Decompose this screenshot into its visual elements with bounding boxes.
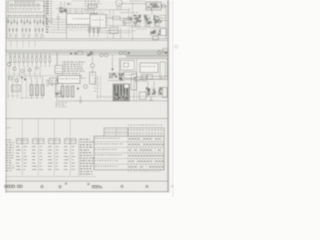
left half mid rail bbox=[7, 75, 56, 77]
labels above PLL box bbox=[67, 10, 69, 13]
relay box left bbox=[124, 72, 137, 78]
terminal symbol bbox=[149, 97, 153, 101]
chassis ground mark bbox=[79, 96, 83, 103]
bus fanout lines bbox=[50, 16, 67, 39]
switch cluster bbox=[109, 72, 118, 78]
schematic right border bbox=[167, 0, 169, 192]
output transistor bbox=[84, 85, 88, 89]
junction dot mid bbox=[112, 68, 114, 70]
faint list bottom rule bbox=[5, 176, 96, 178]
margin note mark bbox=[6, 126, 8, 129]
dashed divider x129 bbox=[128, 8, 130, 37]
vacuum tube V1 bbox=[116, 0, 123, 10]
comb labels bbox=[8, 62, 40, 74]
label row underline bbox=[7, 16, 48, 18]
mid component box bbox=[110, 28, 119, 39]
output socket circle bbox=[162, 4, 166, 8]
power supply label box bbox=[58, 76, 80, 84]
IC block: PLL frequency synthesizer U1 bbox=[67, 14, 98, 25]
lower-left transistors bbox=[9, 77, 12, 80]
bottom remnant parts bbox=[20, 93, 67, 108]
lower mid box bbox=[50, 78, 58, 84]
middle bus line 2 bbox=[7, 54, 168, 56]
block vertical wires bbox=[133, 76, 135, 101]
small box under cluster bbox=[153, 36, 159, 40]
notes text block bbox=[79, 139, 94, 177]
main horizontal bus 1 bbox=[7, 38, 168, 40]
PLL pin stubs and labels bbox=[67, 25, 95, 31]
lower-left vertical wires bbox=[8, 76, 26, 99]
crystal network bbox=[57, 0, 95, 30]
schematic bottom rail bbox=[56, 100, 168, 102]
parts list column bbox=[6, 139, 8, 142]
footer circles E bbox=[88, 183, 102, 188]
footer circle D bbox=[59, 186, 61, 188]
bus component cluster bbox=[87, 51, 95, 56]
smoothing capacitor trio bbox=[58, 86, 79, 97]
tube feed verticals bbox=[109, 10, 111, 18]
left schematic frame line bbox=[5, 0, 7, 193]
labels mid right bbox=[120, 11, 121, 14]
wire from tuner box bbox=[42, 5, 46, 7]
upper bus pair mid bbox=[96, 30, 136, 32]
footer circle F bbox=[121, 185, 123, 187]
label row under cluster bbox=[108, 79, 110, 82]
tuner internal wire 1 bbox=[9, 4, 41, 7]
connector pin list left column bbox=[46, 1, 49, 24]
legend riser lines bbox=[22, 119, 70, 139]
dashed vertical rail top bbox=[107, 14, 109, 39]
transformer T1 bbox=[146, 2, 161, 10]
right small parts row bbox=[135, 77, 162, 81]
signal name label row bbox=[8, 15, 10, 16]
regulator column box bbox=[90, 72, 96, 84]
bottom rule upper bbox=[5, 180, 168, 182]
bus drop stubs to divider bbox=[11, 41, 35, 48]
relay label box bbox=[140, 63, 158, 73]
scanned page area bbox=[5, 0, 170, 193]
IC block: IF amplifier U2 bbox=[90, 12, 106, 28]
stage box A bbox=[121, 61, 135, 71]
bus junction dots bbox=[70, 51, 82, 54]
scan grain overlay bbox=[5, 0, 170, 193]
dashed rail bbox=[98, 76, 101, 99]
pin label row bbox=[104, 97, 105, 100]
lower divider line bbox=[5, 118, 168, 120]
connector legend columns bbox=[16, 139, 76, 176]
IF transformer cluster bbox=[137, 28, 163, 36]
IC row side labels bbox=[161, 14, 163, 17]
block side box bbox=[131, 74, 136, 90]
transistor right on bus bbox=[158, 51, 162, 55]
small component box bbox=[88, 5, 97, 8]
electrolytic capacitor bank bbox=[30, 76, 44, 99]
bus stub left bbox=[6, 18, 8, 39]
fuse box bbox=[140, 92, 147, 100]
stage small boxes bbox=[142, 75, 147, 80]
stage narrow box bbox=[160, 62, 166, 78]
audio output IC cluster row bbox=[134, 15, 162, 28]
transistor pair on bus bbox=[100, 53, 104, 57]
footer margin circle bbox=[171, 185, 173, 187]
mid bus line B bbox=[108, 25, 136, 27]
driver transistor circle bbox=[123, 22, 126, 25]
wire transformer to border bbox=[161, 5, 168, 7]
note under table bbox=[128, 170, 130, 173]
tall side box bbox=[56, 80, 63, 94]
stage labels bbox=[154, 75, 156, 78]
tuner internal wire 2 bbox=[9, 8, 41, 11]
label above transformer bbox=[130, 0, 132, 2]
delay box bbox=[55, 53, 63, 74]
paper background bbox=[0, 0, 180, 200]
footer circle C bbox=[41, 185, 43, 187]
AF transistor Q5 bbox=[91, 64, 95, 68]
stage cluster bbox=[118, 72, 124, 81]
right cap cluster bbox=[158, 87, 167, 98]
middle bus line 1 bbox=[7, 52, 168, 54]
footer hole circles group A bbox=[5, 185, 15, 188]
right lower wires bbox=[140, 75, 168, 77]
mid small box bbox=[113, 16, 121, 20]
footer circle G bbox=[146, 185, 148, 187]
bus label stack bbox=[46, 18, 49, 19]
bus right verticals bbox=[120, 28, 122, 39]
caption above table bbox=[128, 124, 130, 127]
wires to IC row bbox=[120, 20, 133, 22]
right stage outer box bbox=[120, 59, 168, 80]
specification table bbox=[94, 128, 164, 170]
rectifier pair bbox=[146, 87, 156, 98]
main horizontal bus 2 bbox=[7, 40, 168, 42]
left long verticals bbox=[8, 67, 53, 97]
footer hole circles group B bbox=[17, 185, 20, 188]
wiring top-middle labels bbox=[85, 0, 88, 3]
section divider line bbox=[5, 51, 168, 53]
grey bus band bbox=[126, 54, 168, 57]
stage box A inner bbox=[124, 63, 129, 67]
divider right end box bbox=[163, 48, 168, 52]
bottom rule lower bbox=[5, 191, 168, 193]
bus wire bbox=[84, 9, 130, 11]
front-end component groups bbox=[8, 18, 45, 38]
mid resistor group bbox=[88, 26, 100, 37]
punch hole right margin bbox=[175, 45, 178, 48]
comb transistors bbox=[7, 63, 38, 73]
right margin fold line bbox=[172, 0, 174, 197]
mid bus line A bbox=[106, 17, 136, 19]
lower-left label box bbox=[12, 85, 21, 92]
voltage chart text block bbox=[63, 61, 86, 80]
tuner box top trimmer caps bbox=[15, 1, 19, 3]
bias resistor comb bbox=[10, 53, 51, 67]
connector pin list right column bbox=[50, 0, 53, 2]
power transformer block bbox=[113, 84, 130, 101]
transistor pair 2 bbox=[119, 51, 122, 54]
section divider upper line bbox=[5, 49, 168, 51]
junction cluster right bbox=[127, 16, 132, 20]
block: tuner sub-circuit box bbox=[8, 1, 44, 12]
page subtle shading bbox=[5, 0, 170, 193]
vertical rail labels bbox=[94, 77, 96, 80]
pin list border bbox=[43, 0, 45, 26]
middle band vertical boundary bbox=[56, 52, 58, 100]
